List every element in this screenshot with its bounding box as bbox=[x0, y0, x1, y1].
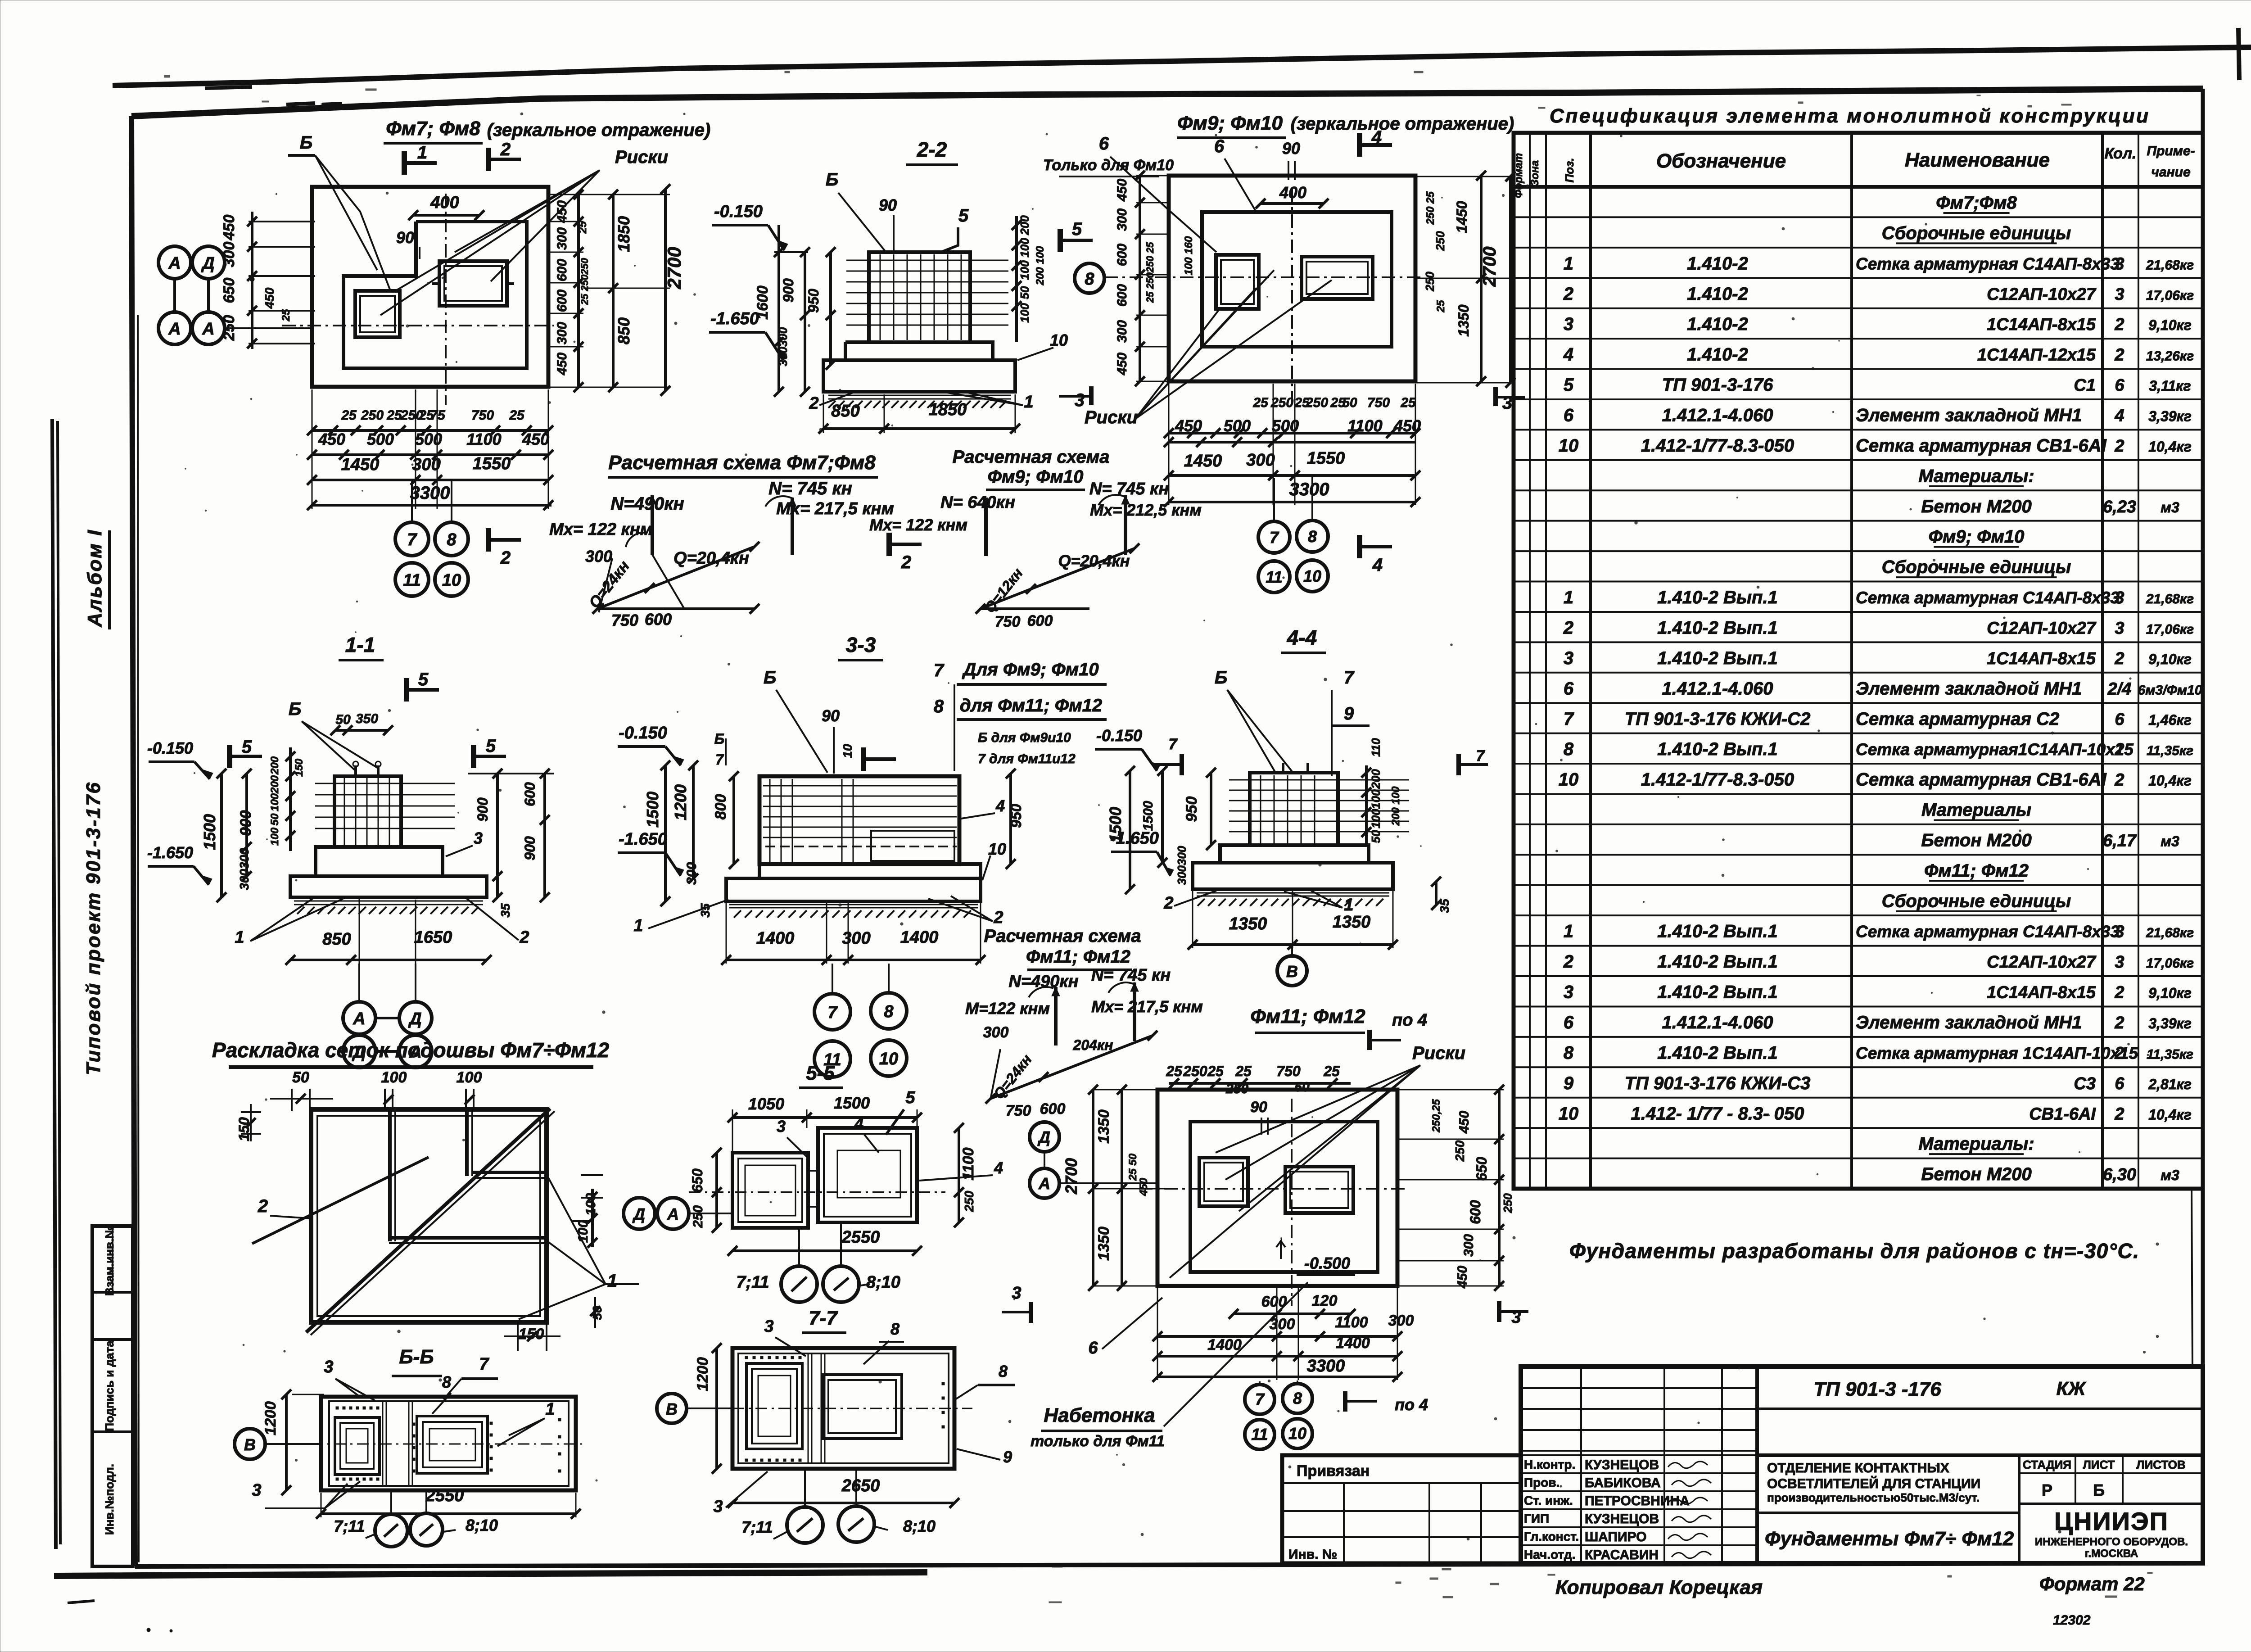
svg-text:10: 10 bbox=[1050, 331, 1068, 349]
svg-text:Раскладка сеток подошвы Фм7÷: Раскладка сеток подошвы Фм7÷Фм12 bbox=[212, 1038, 610, 1062]
svg-text:6: 6 bbox=[1088, 1339, 1098, 1358]
svg-text:750: 750 bbox=[1276, 1063, 1301, 1079]
svg-text:1.410-2 Вып.1: 1.410-2 Вып.1 bbox=[1657, 618, 1778, 638]
svg-text:9,10кг: 9,10кг bbox=[2148, 651, 2192, 667]
svg-text:С12АП-10х27: С12АП-10х27 bbox=[1987, 953, 2097, 972]
svg-text:950: 950 bbox=[1183, 797, 1200, 822]
svg-text:6: 6 bbox=[2115, 710, 2124, 729]
svg-text:2700: 2700 bbox=[1062, 1158, 1080, 1195]
svg-text:350: 350 bbox=[356, 711, 378, 726]
svg-text:1.410-2: 1.410-2 bbox=[1687, 253, 1748, 273]
svg-text:250: 250 bbox=[361, 408, 384, 423]
svg-text:4: 4 bbox=[854, 1114, 863, 1133]
svg-text:7: 7 bbox=[407, 530, 417, 549]
svg-text:300300: 300300 bbox=[1175, 846, 1189, 885]
svg-text:500: 500 bbox=[415, 430, 442, 448]
svg-text:8: 8 bbox=[934, 697, 944, 716]
svg-text:200: 200 bbox=[269, 775, 281, 794]
svg-text:10,4кг: 10,4кг bbox=[2148, 1106, 2192, 1122]
svg-text:3: 3 bbox=[713, 1497, 723, 1516]
svg-text:м3: м3 bbox=[2161, 833, 2179, 849]
svg-text:6: 6 bbox=[2115, 1074, 2124, 1093]
svg-text:Б: Б bbox=[764, 668, 776, 688]
svg-text:1400: 1400 bbox=[900, 928, 939, 947]
svg-text:250: 250 bbox=[962, 1190, 976, 1212]
svg-text:25: 25 bbox=[509, 408, 525, 423]
svg-text:2700: 2700 bbox=[1480, 247, 1500, 287]
svg-text:-0.150: -0.150 bbox=[147, 739, 193, 757]
svg-text:1С14АП-12х15: 1С14АП-12х15 bbox=[1977, 346, 2096, 365]
svg-text:1450: 1450 bbox=[341, 455, 380, 474]
svg-text:5: 5 bbox=[905, 1088, 915, 1107]
svg-text:150: 150 bbox=[236, 1117, 252, 1141]
svg-text:СТАДИЯ: СТАДИЯ bbox=[2023, 1458, 2071, 1471]
svg-text:300: 300 bbox=[1115, 208, 1130, 231]
svg-text:4: 4 bbox=[995, 797, 1005, 815]
svg-text:N= 745 кн: N= 745 кн bbox=[1091, 966, 1171, 985]
svg-text:8: 8 bbox=[1564, 739, 1574, 759]
svg-text:С12АП-10х27: С12АП-10х27 bbox=[1987, 285, 2097, 304]
svg-text:90: 90 bbox=[822, 706, 840, 725]
svg-text:2: 2 bbox=[500, 140, 511, 159]
svg-text:950: 950 bbox=[805, 289, 822, 313]
svg-text:м3: м3 bbox=[2161, 499, 2179, 516]
svg-text:1100: 1100 bbox=[466, 430, 501, 448]
svg-text:25: 25 bbox=[1400, 395, 1416, 410]
svg-text:10: 10 bbox=[879, 1050, 898, 1068]
svg-text:10: 10 bbox=[1303, 567, 1321, 585]
svg-text:250: 250 bbox=[1270, 395, 1293, 410]
svg-text:3: 3 bbox=[2115, 285, 2124, 304]
svg-text:300: 300 bbox=[1246, 451, 1275, 470]
svg-text:200 100: 200 100 bbox=[1034, 246, 1046, 285]
svg-text:1.410-2 Вып.1: 1.410-2 Вып.1 bbox=[1657, 1043, 1778, 1063]
svg-text:ОСВЕТЛИТЕЛЕЙ ДЛЯ СТАНЦИИ: ОСВЕТЛИТЕЛЕЙ ДЛЯ СТАНЦИИ bbox=[1767, 1476, 1980, 1491]
svg-text:М=122 кнм: М=122 кнм bbox=[965, 999, 1050, 1018]
svg-text:1: 1 bbox=[1344, 896, 1353, 914]
svg-text:1: 1 bbox=[417, 143, 427, 163]
svg-text:N= 640кн: N= 640кн bbox=[940, 493, 1015, 512]
svg-text:300300: 300300 bbox=[237, 848, 251, 890]
svg-text:Бетон М200: Бетон М200 bbox=[1921, 830, 2031, 850]
svg-text:Инв. №: Инв. № bbox=[1288, 1547, 1337, 1562]
svg-text:300: 300 bbox=[1461, 1234, 1476, 1257]
svg-text:2: 2 bbox=[2114, 983, 2124, 1002]
svg-text:ЛИСТОВ: ЛИСТОВ bbox=[2136, 1458, 2185, 1471]
svg-text:25: 25 bbox=[1435, 300, 1447, 312]
svg-text:600: 600 bbox=[555, 259, 570, 281]
svg-text:чание: чание bbox=[2151, 165, 2190, 180]
svg-text:1100: 1100 bbox=[1347, 416, 1382, 435]
svg-text:300: 300 bbox=[1115, 320, 1130, 343]
svg-text:100: 100 bbox=[1369, 809, 1383, 828]
svg-text:2: 2 bbox=[2114, 740, 2124, 759]
svg-text:50: 50 bbox=[269, 813, 281, 825]
svg-text:Б: Б bbox=[289, 699, 301, 719]
svg-text:Б: Б bbox=[300, 133, 312, 153]
svg-text:6: 6 bbox=[1099, 134, 1109, 154]
svg-text:650: 650 bbox=[1474, 1157, 1490, 1181]
svg-text:2550: 2550 bbox=[425, 1486, 464, 1505]
svg-text:Сетка арматурная С14АП-8х33: Сетка арматурная С14АП-8х33 bbox=[1856, 588, 2120, 607]
svg-text:г.МОСКВА: г.МОСКВА bbox=[2085, 1548, 2138, 1560]
svg-text:1500: 1500 bbox=[643, 792, 662, 828]
svg-text:21,68кг: 21,68кг bbox=[2146, 592, 2194, 606]
svg-text:2: 2 bbox=[500, 548, 511, 568]
svg-text:100: 100 bbox=[381, 1069, 407, 1086]
svg-text:4: 4 bbox=[1371, 127, 1382, 147]
svg-text:3: 3 bbox=[1012, 1284, 1021, 1303]
svg-text:4: 4 bbox=[1372, 555, 1383, 575]
svg-text:А: А bbox=[168, 254, 181, 273]
svg-text:1.410-2 Вып.1: 1.410-2 Вып.1 bbox=[1657, 588, 1778, 607]
svg-text:600: 600 bbox=[1261, 1293, 1287, 1310]
svg-text:250,25: 250,25 bbox=[1430, 1099, 1442, 1133]
svg-text:8: 8 bbox=[1085, 270, 1094, 289]
svg-text:-0.150: -0.150 bbox=[1096, 726, 1142, 745]
svg-text:25: 25 bbox=[1207, 1063, 1224, 1079]
svg-text:90: 90 bbox=[396, 228, 414, 247]
svg-text:9: 9 bbox=[1564, 1073, 1574, 1093]
svg-text:Б: Б bbox=[1215, 668, 1227, 688]
svg-text:Инв.№подл.: Инв.№подл. bbox=[103, 1464, 116, 1535]
svg-text:1450: 1450 bbox=[1454, 201, 1470, 233]
svg-text:А: А bbox=[168, 320, 181, 339]
svg-text:50: 50 bbox=[335, 712, 351, 727]
svg-text:100: 100 bbox=[1018, 303, 1031, 323]
svg-text:3,39кг: 3,39кг bbox=[2148, 1015, 2192, 1032]
svg-text:8: 8 bbox=[447, 530, 457, 549]
svg-text:450: 450 bbox=[522, 430, 549, 448]
svg-text:6: 6 bbox=[1564, 679, 1574, 698]
svg-text:6: 6 bbox=[1214, 136, 1225, 156]
svg-text:Б-Б: Б-Б bbox=[399, 1346, 434, 1368]
svg-text:250: 250 bbox=[1433, 231, 1447, 251]
svg-text:800: 800 bbox=[712, 794, 729, 820]
svg-text:только для Фм11: только для Фм11 bbox=[1031, 1433, 1165, 1450]
svg-text:1.410-2: 1.410-2 bbox=[1687, 345, 1748, 365]
svg-text:300: 300 bbox=[555, 227, 570, 250]
svg-text:6,17: 6,17 bbox=[2103, 831, 2137, 850]
svg-text:11,35кг: 11,35кг bbox=[2147, 743, 2193, 758]
svg-text:7: 7 bbox=[1255, 1390, 1265, 1408]
svg-text:Обозначение: Обозначение bbox=[1656, 150, 1786, 172]
svg-text:Кол.: Кол. bbox=[2105, 145, 2137, 162]
svg-text:4: 4 bbox=[994, 1159, 1003, 1177]
svg-text:6: 6 bbox=[1564, 1013, 1574, 1032]
svg-text:450: 450 bbox=[1115, 353, 1130, 376]
svg-text:ТП 901-3-176: ТП 901-3-176 bbox=[1662, 375, 1773, 395]
svg-text:3: 3 bbox=[324, 1358, 333, 1376]
svg-text:2700: 2700 bbox=[664, 247, 685, 289]
svg-text:1500: 1500 bbox=[1106, 807, 1125, 843]
svg-text:ОТДЕЛЕНИЕ КОНТАКТНЫХ: ОТДЕЛЕНИЕ КОНТАКТНЫХ bbox=[1767, 1461, 1949, 1475]
svg-text:3: 3 bbox=[1564, 648, 1573, 668]
svg-text:150: 150 bbox=[293, 758, 305, 777]
svg-text:10: 10 bbox=[1559, 1104, 1579, 1123]
svg-text:-0.150: -0.150 bbox=[714, 202, 763, 221]
svg-text:450: 450 bbox=[1393, 416, 1421, 435]
svg-text:7: 7 bbox=[479, 1355, 489, 1374]
svg-text:1.410-2 Вып.1: 1.410-2 Вып.1 bbox=[1657, 982, 1778, 1002]
svg-text:ШАПИРО: ШАПИРО bbox=[1585, 1530, 1647, 1544]
svg-text:450: 450 bbox=[1115, 179, 1130, 202]
svg-text:3: 3 bbox=[764, 1317, 773, 1336]
svg-text:2: 2 bbox=[2114, 315, 2124, 334]
svg-text:300: 300 bbox=[555, 322, 570, 344]
svg-text:25: 25 bbox=[386, 408, 402, 423]
svg-text:Б: Б bbox=[714, 731, 725, 747]
svg-text:С3: С3 bbox=[2074, 1074, 2096, 1093]
svg-text:Материалы:: Материалы: bbox=[1918, 466, 2034, 486]
svg-text:25: 25 bbox=[1235, 1063, 1252, 1079]
svg-text:10: 10 bbox=[841, 744, 854, 758]
svg-text:1350: 1350 bbox=[1095, 1227, 1112, 1261]
svg-text:500: 500 bbox=[1224, 416, 1251, 435]
svg-text:11: 11 bbox=[403, 571, 420, 590]
svg-text:2/4: 2/4 bbox=[2107, 679, 2132, 698]
svg-text:Типовой проект 901-3-176: Типовой проект 901-3-176 bbox=[82, 782, 104, 1075]
svg-text:КУЗНЕЦОВ: КУЗНЕЦОВ bbox=[1585, 1512, 1659, 1526]
svg-text:1.412.1-4.060: 1.412.1-4.060 bbox=[1662, 406, 1773, 425]
svg-text:2: 2 bbox=[1163, 894, 1173, 913]
svg-text:3: 3 bbox=[2115, 923, 2124, 941]
svg-text:600: 600 bbox=[1467, 1200, 1483, 1224]
svg-text:А: А bbox=[353, 1009, 365, 1028]
svg-text:8: 8 bbox=[884, 1002, 894, 1021]
svg-text:Фм11; Фм12: Фм11; Фм12 bbox=[1250, 1005, 1365, 1027]
svg-text:650: 650 bbox=[221, 278, 238, 303]
svg-text:Сетка арматурная1С14АП-10х15: Сетка арматурная1С14АП-10х15 bbox=[1856, 740, 2134, 759]
svg-text:3,11кг: 3,11кг bbox=[2149, 378, 2191, 394]
svg-text:50: 50 bbox=[1018, 286, 1031, 299]
svg-text:Гл.конст.: Гл.конст. bbox=[1524, 1530, 1579, 1543]
svg-text:1.410-2: 1.410-2 bbox=[1687, 314, 1748, 334]
svg-text:10: 10 bbox=[1288, 1424, 1306, 1443]
svg-text:ЦНИИЭП: ЦНИИЭП bbox=[2054, 1507, 2169, 1535]
svg-text:Фундаменты разработаны для ра: Фундаменты разработаны для районов с tн=… bbox=[1569, 1239, 2139, 1263]
svg-text:Сетка арматурная С14АП-8х33: Сетка арматурная С14АП-8х33 bbox=[1856, 254, 2120, 273]
svg-text:850: 850 bbox=[615, 317, 633, 344]
svg-text:400: 400 bbox=[430, 193, 459, 212]
svg-text:4: 4 bbox=[1563, 345, 1573, 365]
svg-text:Сетка арматурная С14АП-8х33: Сетка арматурная С14АП-8х33 bbox=[1856, 923, 2120, 941]
svg-text:Сетка арматурная С2: Сетка арматурная С2 bbox=[1856, 709, 2059, 729]
svg-text:300: 300 bbox=[585, 547, 612, 566]
svg-text:1.410-2 Вып.1: 1.410-2 Вып.1 bbox=[1657, 648, 1778, 668]
svg-text:450: 450 bbox=[262, 287, 276, 309]
svg-text:6,23: 6,23 bbox=[2103, 498, 2136, 516]
svg-text:1.412.1-4.060: 1.412.1-4.060 bbox=[1662, 679, 1773, 698]
svg-text:1350: 1350 bbox=[1333, 913, 1371, 932]
svg-text:-1.650: -1.650 bbox=[710, 309, 759, 328]
svg-text:по 4: по 4 bbox=[1395, 1395, 1428, 1414]
svg-text:ЛИСТ: ЛИСТ bbox=[2083, 1458, 2115, 1471]
svg-text:100: 100 bbox=[583, 1193, 598, 1216]
svg-text:2: 2 bbox=[809, 394, 818, 413]
svg-text:1200: 1200 bbox=[262, 1401, 279, 1435]
svg-text:Фм7; Фм8: Фм7; Фм8 bbox=[386, 118, 480, 140]
svg-text:8: 8 bbox=[1564, 1043, 1574, 1063]
svg-text:1350: 1350 bbox=[1229, 914, 1267, 933]
svg-text:1400: 1400 bbox=[1336, 1335, 1370, 1352]
svg-text:ПЕТРОСВНИНА: ПЕТРОСВНИНА bbox=[1585, 1494, 1690, 1508]
svg-text:ИНЖЕНЕРНОГО ОБОРУДОВ.: ИНЖЕНЕРНОГО ОБОРУДОВ. bbox=[2035, 1536, 2188, 1548]
svg-text:5-5: 5-5 bbox=[806, 1062, 835, 1084]
svg-text:300: 300 bbox=[1388, 1312, 1414, 1329]
svg-text:35: 35 bbox=[498, 903, 512, 918]
svg-text:1050: 1050 bbox=[748, 1095, 784, 1113]
svg-text:Пров.: Пров. bbox=[1524, 1475, 1559, 1489]
svg-text:1600: 1600 bbox=[754, 285, 771, 320]
svg-text:Формат 22: Формат 22 bbox=[2039, 1573, 2145, 1594]
svg-text:2: 2 bbox=[2114, 1014, 2124, 1032]
svg-text:Набетонка: Набетонка bbox=[1044, 1404, 1155, 1426]
svg-text:100: 100 bbox=[457, 1069, 482, 1086]
svg-text:2: 2 bbox=[2114, 1044, 2124, 1063]
svg-text:8;10: 8;10 bbox=[466, 1516, 498, 1534]
svg-text:Альбом I: Альбом I bbox=[84, 530, 106, 628]
svg-text:150: 150 bbox=[519, 1326, 544, 1343]
svg-text:N= 745 кн: N= 745 кн bbox=[1089, 480, 1169, 498]
svg-text:1500: 1500 bbox=[834, 1094, 870, 1112]
svg-text:3: 3 bbox=[1075, 390, 1085, 410]
svg-text:12302: 12302 bbox=[2053, 1613, 2091, 1628]
svg-text:Б: Б bbox=[2093, 1481, 2105, 1499]
svg-text:Мх= 122 кнм: Мх= 122 кнм bbox=[549, 520, 653, 539]
svg-text:200: 200 bbox=[1369, 769, 1383, 789]
svg-text:3: 3 bbox=[777, 1117, 786, 1136]
svg-text:Копировал Корецкая: Копировал Корецкая bbox=[1555, 1576, 1763, 1598]
svg-text:600: 600 bbox=[1115, 284, 1130, 307]
svg-text:7-7: 7-7 bbox=[809, 1307, 838, 1329]
svg-text:300: 300 bbox=[983, 1024, 1009, 1041]
svg-text:8;10: 8;10 bbox=[903, 1517, 936, 1535]
svg-text:Фм11; Фм12: Фм11; Фм12 bbox=[1026, 947, 1130, 967]
svg-text:1350: 1350 bbox=[1455, 304, 1472, 336]
svg-text:2: 2 bbox=[1563, 952, 1573, 972]
svg-text:Элемент закладной МН1: Элемент закладной МН1 bbox=[1856, 406, 2082, 425]
svg-text:110: 110 bbox=[1369, 738, 1383, 757]
svg-text:(зеркальное отражение): (зеркальное отражение) bbox=[487, 120, 711, 140]
svg-text:90: 90 bbox=[1282, 139, 1300, 158]
svg-text:Поз.: Поз. bbox=[1563, 158, 1576, 182]
svg-text:Расчетная схема Фм7;Фм8: Расчетная схема Фм7;Фм8 bbox=[608, 452, 876, 474]
svg-text:7: 7 bbox=[827, 1003, 838, 1022]
svg-text:9,10кг: 9,10кг bbox=[2148, 985, 2192, 1001]
svg-text:Мх= 122 кнм: Мх= 122 кнм bbox=[869, 516, 967, 534]
svg-text:6,30: 6,30 bbox=[2103, 1165, 2136, 1184]
svg-text:5: 5 bbox=[1072, 219, 1082, 239]
svg-text:250 25: 250 25 bbox=[1424, 191, 1437, 225]
svg-text:25: 25 bbox=[1166, 1063, 1183, 1079]
svg-text:Ст. инж.: Ст. инж. bbox=[1524, 1494, 1573, 1507]
svg-text:500: 500 bbox=[367, 430, 394, 448]
svg-text:10,4кг: 10,4кг bbox=[2148, 773, 2192, 789]
svg-text:Бетон М200: Бетон М200 bbox=[1921, 1164, 2031, 1184]
svg-text:25: 25 bbox=[341, 408, 357, 423]
svg-text:4-4: 4-4 bbox=[1287, 626, 1317, 649]
svg-text:ГИП: ГИП bbox=[1524, 1512, 1549, 1525]
svg-text:7: 7 bbox=[934, 661, 945, 680]
svg-text:1.410-2 Вып.1: 1.410-2 Вып.1 bbox=[1657, 922, 1778, 941]
svg-text:-0.150: -0.150 bbox=[619, 724, 667, 742]
svg-text:Мх= 212,5 кнм: Мх= 212,5 кнм bbox=[1090, 501, 1202, 519]
svg-text:1100: 1100 bbox=[960, 1147, 977, 1180]
svg-text:3: 3 bbox=[2115, 588, 2124, 607]
svg-text:Элемент закладной МН1: Элемент закладной МН1 bbox=[1856, 1013, 2082, 1032]
svg-text:300: 300 bbox=[1270, 1316, 1295, 1333]
svg-text:Приме-: Приме- bbox=[2147, 144, 2195, 158]
svg-text:8: 8 bbox=[442, 1373, 451, 1391]
svg-text:2: 2 bbox=[2114, 1104, 2124, 1123]
svg-text:1200: 1200 bbox=[694, 1357, 711, 1391]
svg-text:5: 5 bbox=[486, 736, 496, 756]
svg-text:1,46кг: 1,46кг bbox=[2148, 712, 2192, 728]
svg-text:1: 1 bbox=[1024, 393, 1033, 412]
svg-text:75: 75 bbox=[430, 408, 446, 423]
svg-text:450: 450 bbox=[555, 353, 570, 376]
svg-text:3,39кг: 3,39кг bbox=[2148, 408, 2192, 425]
svg-text:250: 250 bbox=[1305, 395, 1328, 410]
svg-text:1550: 1550 bbox=[1307, 449, 1345, 468]
svg-text:400: 400 bbox=[1279, 183, 1306, 202]
svg-text:В: В bbox=[244, 1435, 256, 1454]
svg-text:17,06кг: 17,06кг bbox=[2146, 622, 2194, 637]
svg-text:Наименование: Наименование bbox=[1905, 149, 2050, 171]
svg-text:7: 7 bbox=[1270, 528, 1279, 547]
svg-text:Спецификация элемента монол: Спецификация элемента монолитной констру… bbox=[1550, 105, 2148, 127]
svg-text:Д: Д bbox=[408, 1009, 421, 1028]
svg-text:1500: 1500 bbox=[1141, 801, 1156, 831]
svg-text:СВ1-6АI: СВ1-6АI bbox=[2029, 1104, 2096, 1123]
svg-text:1С14АП-8х15: 1С14АП-8х15 bbox=[1987, 983, 2096, 1002]
svg-text:200 100: 200 100 bbox=[1390, 786, 1402, 826]
svg-text:5: 5 bbox=[958, 206, 969, 226]
svg-text:Фм9; Фм10: Фм9; Фм10 bbox=[1929, 527, 2025, 547]
svg-text:2550: 2550 bbox=[841, 1228, 880, 1247]
svg-text:В: В bbox=[666, 1400, 678, 1418]
svg-text:100: 100 bbox=[1369, 789, 1383, 809]
svg-text:1650: 1650 bbox=[414, 928, 452, 947]
svg-text:1850: 1850 bbox=[615, 216, 633, 252]
svg-text:N=490кн: N=490кн bbox=[610, 494, 684, 514]
svg-text:750: 750 bbox=[1367, 395, 1390, 410]
svg-text:Элемент закладной МН1: Элемент закладной МН1 bbox=[1856, 679, 2082, 698]
svg-text:Фм7;Фм8: Фм7;Фм8 bbox=[1936, 193, 2017, 213]
svg-text:Д: Д bbox=[201, 254, 214, 273]
svg-text:6: 6 bbox=[2115, 376, 2124, 395]
svg-text:8: 8 bbox=[999, 1362, 1008, 1380]
svg-text:Сетка арматурная СВ1-6АI: Сетка арматурная СВ1-6АI bbox=[1856, 770, 2107, 790]
svg-text:25: 25 bbox=[280, 309, 292, 321]
svg-text:8: 8 bbox=[1308, 527, 1317, 546]
svg-text:Сборочные единицы: Сборочные единицы bbox=[1882, 891, 2071, 911]
svg-text:КЖ: КЖ bbox=[2057, 1378, 2087, 1399]
svg-text:3: 3 bbox=[1564, 314, 1573, 334]
svg-text:900: 900 bbox=[780, 278, 796, 303]
svg-text:2: 2 bbox=[2114, 437, 2124, 456]
svg-text:2: 2 bbox=[2114, 346, 2124, 365]
svg-text:9: 9 bbox=[1344, 704, 1354, 724]
svg-text:1-1: 1-1 bbox=[345, 633, 375, 656]
svg-text:3: 3 bbox=[2115, 619, 2124, 638]
svg-text:200: 200 bbox=[1018, 215, 1031, 235]
svg-text:1.410-2: 1.410-2 bbox=[1687, 284, 1748, 304]
svg-text:8;10: 8;10 bbox=[866, 1273, 900, 1292]
svg-text:В: В bbox=[1286, 962, 1298, 981]
svg-text:Сборочные единицы: Сборочные единицы bbox=[1882, 223, 2071, 243]
